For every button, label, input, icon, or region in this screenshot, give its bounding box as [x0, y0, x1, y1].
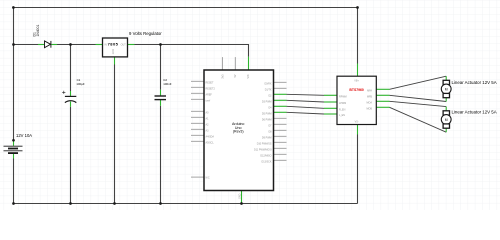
svg-text:RPWM: RPWM	[339, 95, 347, 98]
diode D1 anode leg	[38, 44, 44, 46]
driver R_EN leg	[324, 107, 337, 109]
capacitor C2 symbol	[155, 96, 167, 100]
svg-text:MOA: MOA	[367, 101, 373, 104]
svg-text:5V: 5V	[234, 74, 237, 77]
driver MFA leg	[376, 88, 389, 90]
arduino right leads D0 D1	[274, 82, 287, 88]
arduino GND leg	[241, 191, 243, 204]
diode D1 label	[32, 25, 40, 37]
wire driver MOA to motor2 top	[390, 101, 447, 106]
svg-text:N/C: N/C	[206, 177, 210, 180]
wire driver MOB to motor2 bottom	[390, 107, 447, 132]
driver LPWM leg	[324, 101, 337, 103]
wire arduino D4 to driver pin3	[287, 106, 325, 108]
svg-text:Linear Actuator 12V 5A: Linear Actuator 12V 5A	[452, 110, 497, 115]
wire battery+ to diode anode	[13, 44, 38, 46]
arduino D2 leg	[274, 93, 287, 95]
svg-text:MOB: MOB	[367, 107, 373, 110]
svg-text:RESET2: RESET2	[206, 87, 216, 90]
svg-text:IN: IN	[104, 43, 107, 46]
svg-text:D5 PWM: D5 PWM	[262, 112, 272, 115]
svg-text:(Rev3): (Rev3)	[233, 130, 244, 134]
svg-text:OUT: OUT	[121, 43, 127, 46]
arduino D3 leg	[274, 99, 287, 101]
arduino right pin labels	[254, 82, 272, 163]
driver MOA leg	[376, 100, 389, 102]
svg-text:ioref: ioref	[206, 99, 211, 102]
node ground rail arduino GND	[240, 202, 243, 205]
svg-text:L_EN: L_EN	[339, 114, 345, 117]
driver L_EN leg	[324, 113, 337, 115]
7805 IN leg	[96, 44, 103, 46]
driver right pin labels	[367, 89, 373, 110]
driver RPWM leg	[324, 94, 337, 96]
arduino left pin labels	[206, 81, 216, 179]
svg-text:BTS7960: BTS7960	[349, 88, 363, 92]
motor1 bottom leg	[445, 98, 447, 102]
driver MFB leg	[376, 94, 389, 96]
svg-text:100µF: 100µF	[76, 82, 84, 86]
svg-text:1N4001: 1N4001	[36, 25, 40, 37]
svg-text:D11 PWM/MOSI: D11 PWM/MOSI	[254, 148, 272, 151]
svg-text:MFB: MFB	[367, 95, 372, 98]
arduino D4 leg	[274, 105, 287, 107]
node battery/diode tap	[12, 43, 15, 46]
svg-text:D10 PWM/SS: D10 PWM/SS	[257, 142, 272, 145]
svg-text:GND: GND	[112, 49, 115, 55]
svg-text:R_EN: R_EN	[339, 108, 346, 111]
node battery +	[12, 139, 15, 142]
svg-text:RESET: RESET	[206, 81, 215, 84]
svg-text:7805: 7805	[108, 41, 119, 46]
wire top rail battery+ to driver	[13, 7, 358, 9]
motor1 top leg	[445, 76, 447, 80]
diode D1 symbol	[45, 41, 51, 48]
svg-text:VB+: VB+	[354, 80, 359, 83]
wire node to C2	[160, 45, 162, 90]
node C2 tap	[159, 43, 162, 46]
wire arduino D5 to driver pin4	[287, 112, 325, 114]
diode D1 cathode leg	[52, 44, 58, 46]
node top-right corner	[356, 6, 359, 9]
node ground rail battery	[12, 202, 15, 205]
svg-text:M: M	[445, 118, 448, 122]
svg-text:LPWM: LPWM	[339, 102, 346, 105]
node top-left corner	[12, 6, 15, 9]
wire bottom ground rail	[13, 203, 358, 205]
wire C1 to ground rail	[70, 107, 72, 204]
C1 bottom leg	[70, 102, 72, 107]
svg-text:D1/TX: D1/TX	[265, 88, 272, 91]
wire node to C1	[70, 45, 72, 92]
svg-text:GND: GND	[239, 193, 242, 199]
motor M1 linear actuator	[441, 80, 451, 97]
motor M2 linear actuator	[441, 111, 451, 128]
battery + leg	[13, 140, 15, 146]
7805 OUT leg	[128, 44, 135, 46]
svg-text:D0/RX: D0/RX	[264, 82, 271, 85]
wire arduino D2 to driver pin1	[287, 94, 325, 95]
svg-text:D9 PWM: D9 PWM	[262, 136, 272, 139]
svg-text:100nF: 100nF	[163, 82, 171, 86]
node ground rail C2	[159, 202, 162, 205]
driver VS- leg	[357, 125, 359, 135]
wire driver MFA to motor1 top	[390, 76, 447, 89]
regulator U1 7805 box	[103, 38, 128, 57]
arduino name label	[232, 122, 244, 134]
wire C2 to ground rail	[160, 106, 162, 204]
svg-text:3V3: 3V3	[221, 74, 224, 79]
svg-text:9 Volts Regulator: 9 Volts Regulator	[129, 31, 162, 36]
wire driver MFB to motor1 bottom	[390, 95, 447, 101]
wire diode cathode to 7805 IN	[57, 44, 96, 46]
driver MOB leg	[376, 106, 389, 108]
node ground rail C1	[69, 202, 72, 205]
svg-text:D12/MISO: D12/MISO	[260, 154, 271, 157]
node ground rail 7805	[113, 202, 116, 205]
C2 top leg	[160, 90, 162, 96]
driver left pin labels	[339, 95, 347, 117]
svg-text:D13/SCK: D13/SCK	[262, 160, 272, 163]
svg-text:A4/SDA: A4/SDA	[206, 135, 215, 138]
svg-text:Linear Actuator 12V 5A: Linear Actuator 12V 5A	[452, 80, 497, 85]
wire ground rail to driver VS-	[357, 135, 359, 204]
arduino 5V lead	[234, 57, 236, 70]
op-amp U2 arduino box	[204, 70, 274, 191]
battery - leg	[13, 153, 15, 158]
wire battery- to ground rail	[13, 159, 15, 204]
7805 GND leg	[114, 57, 116, 65]
svg-text:A5/SCL: A5/SCL	[206, 141, 215, 144]
wire left drop battery+	[13, 7, 15, 140]
svg-text:12V 10A: 12V 10A	[16, 133, 32, 138]
arduino D5 leg	[274, 111, 287, 113]
battery BAT1 symbol	[4, 146, 23, 153]
node C1 tap	[69, 43, 72, 46]
wire right drop to driver VB+	[357, 7, 359, 64]
wire 7805 GND to ground rail	[114, 65, 116, 204]
C2 bottom leg	[160, 100, 162, 106]
wire 7805 OUT to Arduino VIN	[135, 45, 249, 57]
arduino 3V3 lead	[221, 57, 223, 70]
svg-text:VIN: VIN	[247, 74, 250, 78]
svg-text:MFA: MFA	[367, 89, 372, 92]
motor2 top leg	[445, 107, 447, 111]
arduino left leads RESET..A5	[191, 81, 204, 141]
svg-text:VS-: VS-	[355, 121, 359, 124]
arduino top pin labels	[221, 74, 250, 79]
arduino N/C lead	[191, 176, 204, 178]
svg-text:M: M	[445, 87, 448, 91]
driver VB+ leg	[357, 64, 359, 77]
svg-text:AREF: AREF	[206, 93, 213, 96]
svg-text:D3 PWM: D3 PWM	[262, 100, 272, 103]
arduino right leads D6..D13	[274, 118, 287, 160]
motor2 bottom leg	[445, 128, 447, 132]
svg-text:D6 PWM: D6 PWM	[262, 118, 272, 121]
transistor driver U3 BTS7960 box	[337, 76, 376, 124]
arduino VIN leg	[248, 57, 250, 70]
capacitor C1 symbol	[62, 91, 76, 103]
wire arduino D3 to driver pin2	[287, 100, 325, 102]
C1 top leg	[70, 91, 72, 96]
